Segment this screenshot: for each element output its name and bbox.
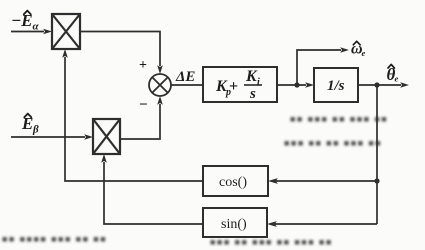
wire cos output feedback to M1 bottom	[65, 57, 203, 181]
svg-text:+: +	[229, 78, 238, 95]
label -E_alpha input	[11, 11, 40, 33]
wire into cos block	[276, 180, 377, 182]
integrator block 1/s	[314, 68, 358, 102]
summing junction circle with X	[149, 74, 171, 96]
svg-text:■■ ■■■ ■■ ■■■ ■■: ■■ ■■■ ■■ ■■■ ■■	[290, 114, 388, 124]
wire E_beta into multiplier M2	[11, 136, 85, 138]
svg-text:+: +	[139, 58, 147, 73]
svg-text:1/s: 1/s	[327, 78, 345, 94]
sin block	[203, 208, 267, 237]
svg-text:■■ ■■■■ ■■■ ■■ ■■: ■■ ■■■■ ■■■ ■■ ■■	[2, 234, 107, 244]
wire M2 output to summing junction bottom	[120, 104, 160, 139]
svg-text:e: e	[395, 74, 399, 84]
svg-text:■■■ ■■ ■■■ ■■ ■■■ ■■: ■■■ ■■ ■■■ ■■ ■■■ ■■	[210, 237, 333, 247]
label omega-hat-e	[351, 41, 366, 59]
svg-text:β: β	[32, 124, 39, 136]
label theta-hat-e	[387, 64, 399, 84]
multiplier M2	[93, 119, 120, 154]
wire -E_alpha into multiplier M1	[11, 31, 44, 33]
node theta feedback	[374, 82, 379, 87]
multiplier M1	[52, 14, 80, 49]
svg-text:sin(): sin()	[221, 217, 247, 232]
svg-text:e: e	[362, 48, 366, 58]
PI block Kp + Ki/s	[203, 67, 277, 102]
label E_beta input	[21, 114, 39, 136]
wire summing junction to PI block	[171, 84, 203, 86]
wire feedback vertical from theta node	[376, 85, 378, 224]
wire omega branch up and right	[297, 50, 341, 85]
svg-text:i: i	[257, 77, 260, 88]
svg-text:ΔE: ΔE	[175, 69, 195, 85]
node on PI output	[294, 82, 299, 87]
wire sin output feedback to M2 bottom	[104, 162, 203, 224]
wire into sin block	[275, 223, 377, 225]
wire PI output to integrator with omega branch node	[277, 84, 306, 86]
svg-text:■■■ ■■ ■■ ■■■ ■■: ■■■ ■■ ■■ ■■■ ■■	[284, 138, 382, 148]
wire M1 output to summing junction top	[80, 32, 160, 67]
node cos branch	[374, 178, 379, 183]
svg-text:s: s	[249, 86, 256, 102]
svg-text:−: −	[139, 97, 148, 113]
svg-text:cos(): cos()	[219, 175, 247, 190]
cos block	[203, 166, 268, 196]
wire integrator output to theta arrow	[358, 84, 401, 86]
